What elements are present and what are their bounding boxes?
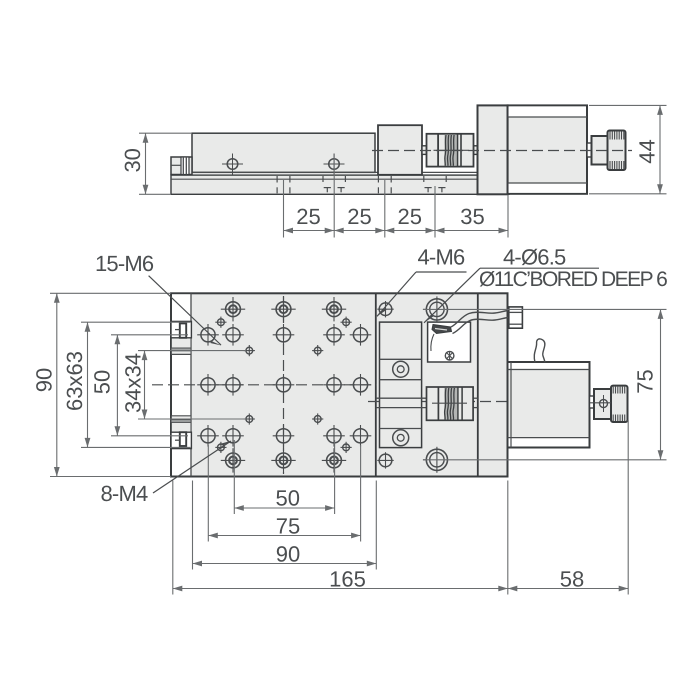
svg-text:75: 75 xyxy=(633,369,658,393)
svg-text:90: 90 xyxy=(276,542,300,567)
svg-text:Ø11C’BORED DEEP 6: Ø11C’BORED DEEP 6 xyxy=(479,268,667,291)
svg-text:25: 25 xyxy=(296,204,320,229)
svg-text:63x63: 63x63 xyxy=(62,351,87,411)
svg-text:15-M6: 15-M6 xyxy=(95,251,154,276)
svg-text:50: 50 xyxy=(90,370,115,394)
svg-text:75: 75 xyxy=(276,514,300,539)
svg-text:25: 25 xyxy=(347,204,371,229)
svg-text:35: 35 xyxy=(460,204,484,229)
svg-text:4-M6: 4-M6 xyxy=(418,245,465,270)
svg-text:34x34: 34x34 xyxy=(121,353,146,413)
svg-text:30: 30 xyxy=(120,148,145,172)
svg-text:44: 44 xyxy=(635,139,660,163)
svg-text:90: 90 xyxy=(32,368,57,392)
svg-text:25: 25 xyxy=(397,204,421,229)
svg-text:8-M4: 8-M4 xyxy=(101,481,148,506)
svg-text:58: 58 xyxy=(560,567,584,592)
svg-text:165: 165 xyxy=(329,567,366,592)
svg-text:50: 50 xyxy=(276,486,300,511)
svg-text:4-Ø6.5: 4-Ø6.5 xyxy=(503,245,566,270)
